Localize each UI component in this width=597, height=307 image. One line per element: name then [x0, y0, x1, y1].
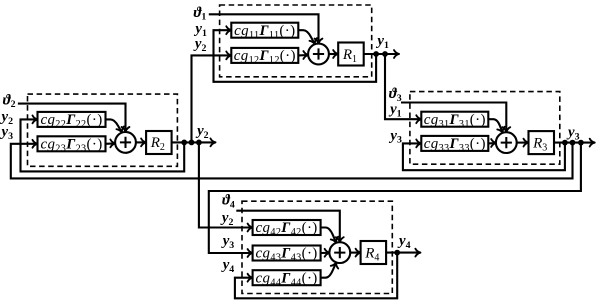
block G33 cg33	[421, 136, 488, 151]
block G43 cg43	[253, 246, 321, 261]
block R2	[146, 131, 172, 154]
svg-text:cg44Γ44(·): cg44Γ44(·)	[256, 270, 318, 288]
wire G44 output into summer U4	[321, 262, 337, 277]
svg-text:cg22Γ22(·): cg22Γ22(·)	[40, 112, 102, 130]
wire summer U3 to R3	[517, 142, 529, 144]
node y2 a	[181, 140, 187, 146]
node y2 c	[196, 140, 202, 146]
wire G12 output into summer U1	[298, 54, 308, 57]
wire y1 from node after R1 to block G31	[385, 54, 421, 119]
block G44 cg44	[253, 270, 321, 285]
subsystem 1 dashed box	[220, 5, 372, 77]
wire y2 feedback from node after R2 to block G22	[21, 119, 185, 171]
node y3 a	[562, 140, 568, 146]
block R4	[361, 241, 387, 264]
wire G11 output into summer U1	[298, 30, 315, 44]
node y1 a	[373, 51, 379, 57]
block G31 cg31	[421, 112, 488, 127]
wire G33 output into summer U3	[488, 142, 496, 144]
svg-text:cg33Γ33(·): cg33Γ33(·)	[424, 136, 486, 154]
svg-text:cg43Γ43(·): cg43Γ43(·)	[256, 246, 318, 264]
subsystem 3 dashed box	[410, 92, 560, 165]
block R3	[529, 131, 555, 154]
wire G23 output into summer U2	[106, 142, 116, 145]
svg-text:cg11Γ11(·): cg11Γ11(·)	[234, 23, 295, 41]
block G42 cg42	[253, 220, 321, 235]
input theta3 wire into summer U3	[401, 103, 506, 133]
wire summer U2 to R2	[136, 141, 146, 143]
block G23 cg23	[38, 136, 106, 151]
wire y3 from node after R3 to block G23	[11, 143, 573, 179]
block G12 cg12	[231, 48, 298, 63]
summer U2	[115, 132, 136, 153]
wire y2 output	[172, 141, 216, 143]
wire y1 output	[364, 53, 399, 55]
node y2 b	[189, 140, 195, 146]
wire y2 from node after R2 down to block G42	[199, 142, 253, 227]
input theta1 wire into summer U1	[209, 14, 319, 43]
block G22 cg22	[38, 112, 106, 127]
wire G22 output into summer U2	[106, 119, 122, 132]
node y3 c	[578, 140, 584, 146]
wire G43 output into summer U4	[321, 252, 330, 254]
node y4	[394, 250, 400, 256]
wire summer U1 to R1	[329, 53, 338, 55]
wire y3 from node after R3 down to block G43	[209, 143, 581, 253]
block G11 cg11	[231, 23, 298, 38]
svg-text:cg42Γ42(·): cg42Γ42(·)	[256, 220, 318, 238]
svg-text:cg31Γ31(·): cg31Γ31(·)	[424, 112, 486, 130]
node y1 b	[382, 51, 388, 57]
svg-text:cg12Γ12(·): cg12Γ12(·)	[234, 48, 296, 66]
input theta4 wire into summer U4	[236, 211, 339, 243]
wire y2 from node after R2 up to block G12	[192, 55, 232, 142]
summer U1	[308, 44, 329, 65]
block R1	[338, 43, 364, 66]
svg-text:cg23Γ23(·): cg23Γ23(·)	[40, 136, 102, 154]
subsystem 4 dashed box	[242, 201, 392, 293]
wire y1 feedback from node after R1 to block G11	[214, 30, 377, 82]
summer U3	[496, 132, 517, 153]
wire y4 feedback from node after R4 to block G44	[235, 253, 397, 299]
summer U4	[329, 242, 350, 263]
wire y3 feedback from node after R3 to block G33	[403, 143, 565, 171]
wire G42 output into summer U4	[321, 228, 337, 243]
wire G31 output into summer U3	[488, 119, 502, 133]
wire y4 output	[386, 252, 420, 254]
input theta2 wire into summer U2	[18, 104, 126, 132]
node y3 b	[570, 140, 576, 146]
wire summer U4 to R4	[350, 252, 360, 254]
wire y3 output	[554, 142, 595, 144]
subsystem 2 dashed box	[28, 94, 178, 166]
